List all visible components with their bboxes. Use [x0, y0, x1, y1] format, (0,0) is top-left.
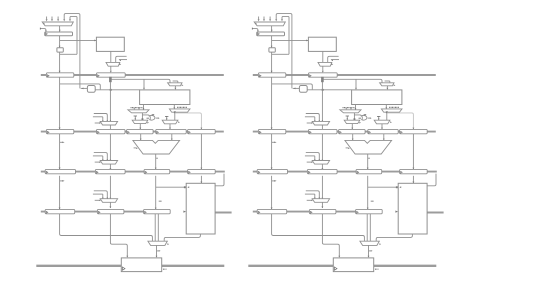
left copy	[36, 14, 231, 272]
right copy	[248, 14, 443, 272]
